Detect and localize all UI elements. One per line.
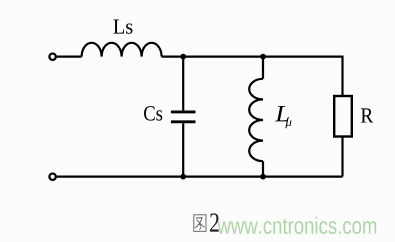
resistor R bbox=[334, 96, 352, 137]
wire Lmu bottom stub bbox=[262, 161, 264, 176]
label Lmu subscript mu bbox=[285, 120, 291, 128]
node junction bottom at capacitor bbox=[180, 174, 186, 180]
node junction top at Lmu bbox=[260, 54, 266, 60]
inductor Lmu bbox=[249, 79, 263, 161]
wire capacitor bottom stub bbox=[182, 123, 184, 176]
wire top-right segment bbox=[162, 57, 343, 96]
caption figure number 2 bbox=[210, 213, 219, 231]
wire resistor bottom stub bbox=[341, 137, 343, 177]
label R bbox=[361, 108, 373, 122]
node junction top at capacitor bbox=[180, 54, 186, 60]
label Cs bbox=[144, 106, 162, 120]
terminal bottom-left bbox=[49, 174, 55, 180]
wire bottom segment bbox=[57, 176, 343, 178]
terminal top-left bbox=[49, 54, 55, 60]
caption figure character tu (CJK) bbox=[194, 215, 206, 232]
wire capacitor top stub bbox=[182, 57, 184, 111]
node junction bottom at Lmu bbox=[260, 174, 266, 180]
watermark www.cntronics.com bbox=[0, 0, 1, 1]
wire top-left segment bbox=[57, 55, 82, 57]
inductor Ls bbox=[82, 43, 162, 57]
label Lmu letter L bbox=[275, 106, 289, 121]
capacitor Cs bottom plate bbox=[171, 120, 196, 123]
wire Lmu top stub bbox=[262, 57, 264, 79]
capacitor Cs top plate bbox=[171, 110, 196, 113]
label Ls bbox=[113, 20, 132, 34]
